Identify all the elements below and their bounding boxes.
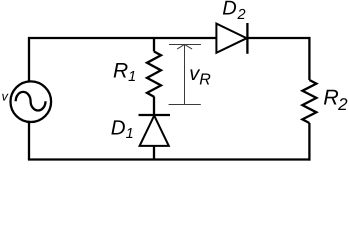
node vR arrowhead bbox=[177, 45, 192, 50]
wire D1 bottom stub bbox=[153, 146, 155, 160]
wire right vertical lower bbox=[308, 123, 310, 161]
wire R1 to D1 stub bbox=[153, 96, 155, 115]
source sine wave bbox=[16, 92, 46, 111]
diode D2 cathode bar bbox=[246, 23, 248, 54]
wire top-left horizontal bbox=[29, 37, 216, 39]
svg-text:v: v bbox=[2, 88, 10, 103]
svg-text:R2: R2 bbox=[323, 85, 348, 114]
wire left vertical lower bbox=[28, 121, 30, 160]
node vR bottom tick bbox=[169, 104, 201, 106]
svg-text:D1: D1 bbox=[111, 116, 134, 142]
source V circle bbox=[11, 81, 52, 122]
svg-text:vR: vR bbox=[189, 63, 211, 88]
diode D1 triangle bbox=[140, 116, 169, 146]
wire left vertical upper bbox=[28, 37, 30, 83]
svg-text:R1: R1 bbox=[113, 60, 136, 85]
resistor R1 zigzag bbox=[147, 52, 161, 97]
wire bottom horizontal bbox=[28, 158, 311, 160]
svg-text:D2: D2 bbox=[222, 0, 245, 23]
node vR arrow line bbox=[184, 45, 186, 105]
diode D1 cathode bar bbox=[139, 114, 171, 116]
wire R1 branch top stub bbox=[153, 38, 155, 52]
resistor R2 zigzag bbox=[302, 80, 316, 123]
wire right vertical upper bbox=[308, 37, 310, 80]
diode D2 triangle bbox=[216, 24, 246, 53]
node vR top tick bbox=[169, 44, 201, 46]
wire top-right horizontal bbox=[247, 37, 309, 39]
